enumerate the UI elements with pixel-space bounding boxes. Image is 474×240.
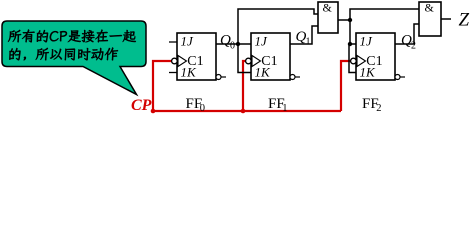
- flip-flop FF2: [351, 33, 405, 80]
- FF0 label: [186, 96, 206, 114]
- callout text line 1: 所有的CP是接在一起: [8, 30, 136, 43]
- flip-flop FF1: [246, 33, 300, 80]
- svg-text:&: &: [323, 1, 333, 15]
- node FF2 J junction: [348, 42, 352, 46]
- svg-text:1J: 1J: [255, 34, 269, 49]
- wire CP to FF1 clock: [243, 61, 246, 111]
- and-gate G2: [419, 1, 441, 37]
- svg-text:1J: 1J: [181, 34, 195, 49]
- FF1 label: [268, 96, 288, 114]
- svg-text:0: 0: [200, 103, 205, 114]
- FF0 J input stub: [169, 41, 177, 43]
- svg-text:1K: 1K: [360, 65, 377, 80]
- wire Q1 output to AND gate G1 lower input: [290, 26, 318, 44]
- wire G1 output to AND gate G2 upper input: [350, 9, 419, 20]
- wire CP to FF2 clock: [341, 61, 351, 111]
- CP label: [131, 97, 152, 114]
- wire G1 output: [338, 19, 350, 21]
- svg-text:2: 2: [376, 103, 381, 114]
- callout bubble: [2, 21, 146, 95]
- svg-text:Z: Z: [459, 10, 470, 31]
- node G1 output junction: [348, 18, 352, 22]
- label Q0: [220, 33, 235, 52]
- svg-text:1K: 1K: [255, 65, 272, 80]
- wire Q2 output to AND gate G2 lower input: [395, 24, 419, 44]
- wire Q0 output to FF1 J input: [216, 43, 251, 45]
- label Z output: [459, 10, 470, 31]
- svg-text:1: 1: [306, 37, 311, 48]
- FF2 label: [362, 96, 382, 114]
- svg-text:2: 2: [411, 41, 416, 52]
- wire CP to FF0 clock: [153, 61, 172, 111]
- svg-text:0: 0: [230, 41, 235, 52]
- node CP-FF0 junction: [151, 109, 156, 114]
- svg-text:1: 1: [282, 103, 287, 114]
- flip-flop FF0: [172, 33, 226, 80]
- and-gate G1: [318, 1, 338, 34]
- FF0 K input stub: [169, 72, 177, 74]
- label Q1: [296, 29, 311, 48]
- CP bus wire (red): [153, 110, 341, 112]
- wire Q0 up to AND gate G1 upper input: [238, 9, 318, 44]
- node CP-FF1 junction: [241, 109, 246, 114]
- wire G1 output tie to FF2 J and K inputs: [349, 20, 356, 73]
- svg-text:1K: 1K: [181, 65, 198, 80]
- wire Q0 tie to FF1 K input: [238, 44, 251, 73]
- wire G2 output to Z: [441, 18, 451, 20]
- node Q0 junction: [236, 42, 240, 46]
- svg-text:1J: 1J: [360, 34, 374, 49]
- svg-text:&: &: [425, 1, 435, 15]
- label Q2: [401, 33, 416, 52]
- svg-text:CP: CP: [131, 97, 152, 114]
- callout text line 2: 的，所以同时动作: [9, 48, 118, 61]
